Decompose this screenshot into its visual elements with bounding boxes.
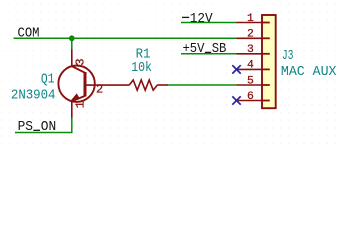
- svg-text:2: 2: [96, 83, 103, 97]
- connector J3 pin 3 inner mark: [262, 53, 270, 55]
- connector J3 pin 2 inner mark: [262, 37, 270, 39]
- svg-text:3: 3: [247, 44, 254, 56]
- svg-text:4: 4: [247, 60, 254, 72]
- svg-text:MAC AUX: MAC AUX: [281, 64, 337, 80]
- svg-text:3: 3: [73, 58, 87, 65]
- connector J3 pin 6 stub: [237, 100, 263, 102]
- transistor Q1 base bar: [84, 72, 87, 96]
- no-connect X on J3 pin 4: [232, 65, 240, 73]
- svg-text:1: 1: [247, 13, 254, 25]
- transistor Q1 emitter diagonal: [72, 96, 85, 101]
- transistor Q1 pin 1 emitter stub: [71, 101, 73, 118]
- svg-text:PS: PS: [18, 120, 33, 135]
- label -12V: [182, 16, 189, 18]
- wire PS_ON horizontal: [15, 132, 72, 134]
- connector J3 pin 4 inner mark: [262, 68, 270, 70]
- transistor Q1 pin 3 collector stub: [71, 49, 73, 66]
- svg-text:10k: 10k: [131, 60, 152, 76]
- svg-text:5: 5: [247, 75, 254, 87]
- transistor Q1 base pin 2 line: [87, 84, 130, 86]
- connector J3 pin 4 stub: [237, 68, 263, 70]
- wire PS_ON vertical to Q1 emitter: [71, 118, 73, 134]
- connector J3 pin 3 stub: [237, 53, 263, 55]
- wire COM net horizontal: [14, 37, 237, 39]
- connector J3 pin 5 inner mark: [262, 84, 270, 86]
- svg-text:J3: J3: [282, 48, 293, 64]
- wire -12V to J3 pin1: [181, 22, 237, 24]
- svg-text:12V: 12V: [190, 12, 213, 27]
- svg-text:6: 6: [247, 91, 254, 103]
- svg-text:2N3904: 2N3904: [11, 87, 56, 103]
- svg-text:+5V: +5V: [183, 42, 205, 57]
- transistor Q1 collector diagonal: [72, 66, 85, 73]
- svg-text:SB: SB: [212, 42, 227, 57]
- connector J3 body: [262, 15, 276, 108]
- wire +5V_SB to J3 pin3: [181, 53, 237, 55]
- wire R1 to J3 pin5: [168, 84, 237, 86]
- transistor Q1 emitter arrow: [72, 94, 80, 100]
- wire junction to Q1 collector: [71, 38, 73, 49]
- resistor R1 zigzag: [129, 80, 157, 90]
- svg-text:1: 1: [73, 101, 87, 108]
- connector J3 pin 1 inner mark: [262, 22, 270, 24]
- resistor R1 right pin stub: [157, 84, 168, 86]
- connector J3 pin 2 stub: [237, 37, 263, 39]
- connector J3 pin 6 inner mark: [262, 100, 270, 102]
- svg-text:COM: COM: [18, 27, 40, 42]
- node junction on COM wire: [69, 35, 75, 41]
- svg-text:Q1: Q1: [41, 71, 55, 87]
- connector J3 pin 1 stub: [237, 22, 263, 24]
- transistor Q1 body circle: [58, 66, 94, 102]
- svg-text:2: 2: [247, 29, 254, 41]
- svg-text:ON: ON: [41, 120, 56, 135]
- no-connect X on J3 pin 6: [232, 96, 240, 104]
- connector J3 pin 5 stub: [237, 84, 263, 86]
